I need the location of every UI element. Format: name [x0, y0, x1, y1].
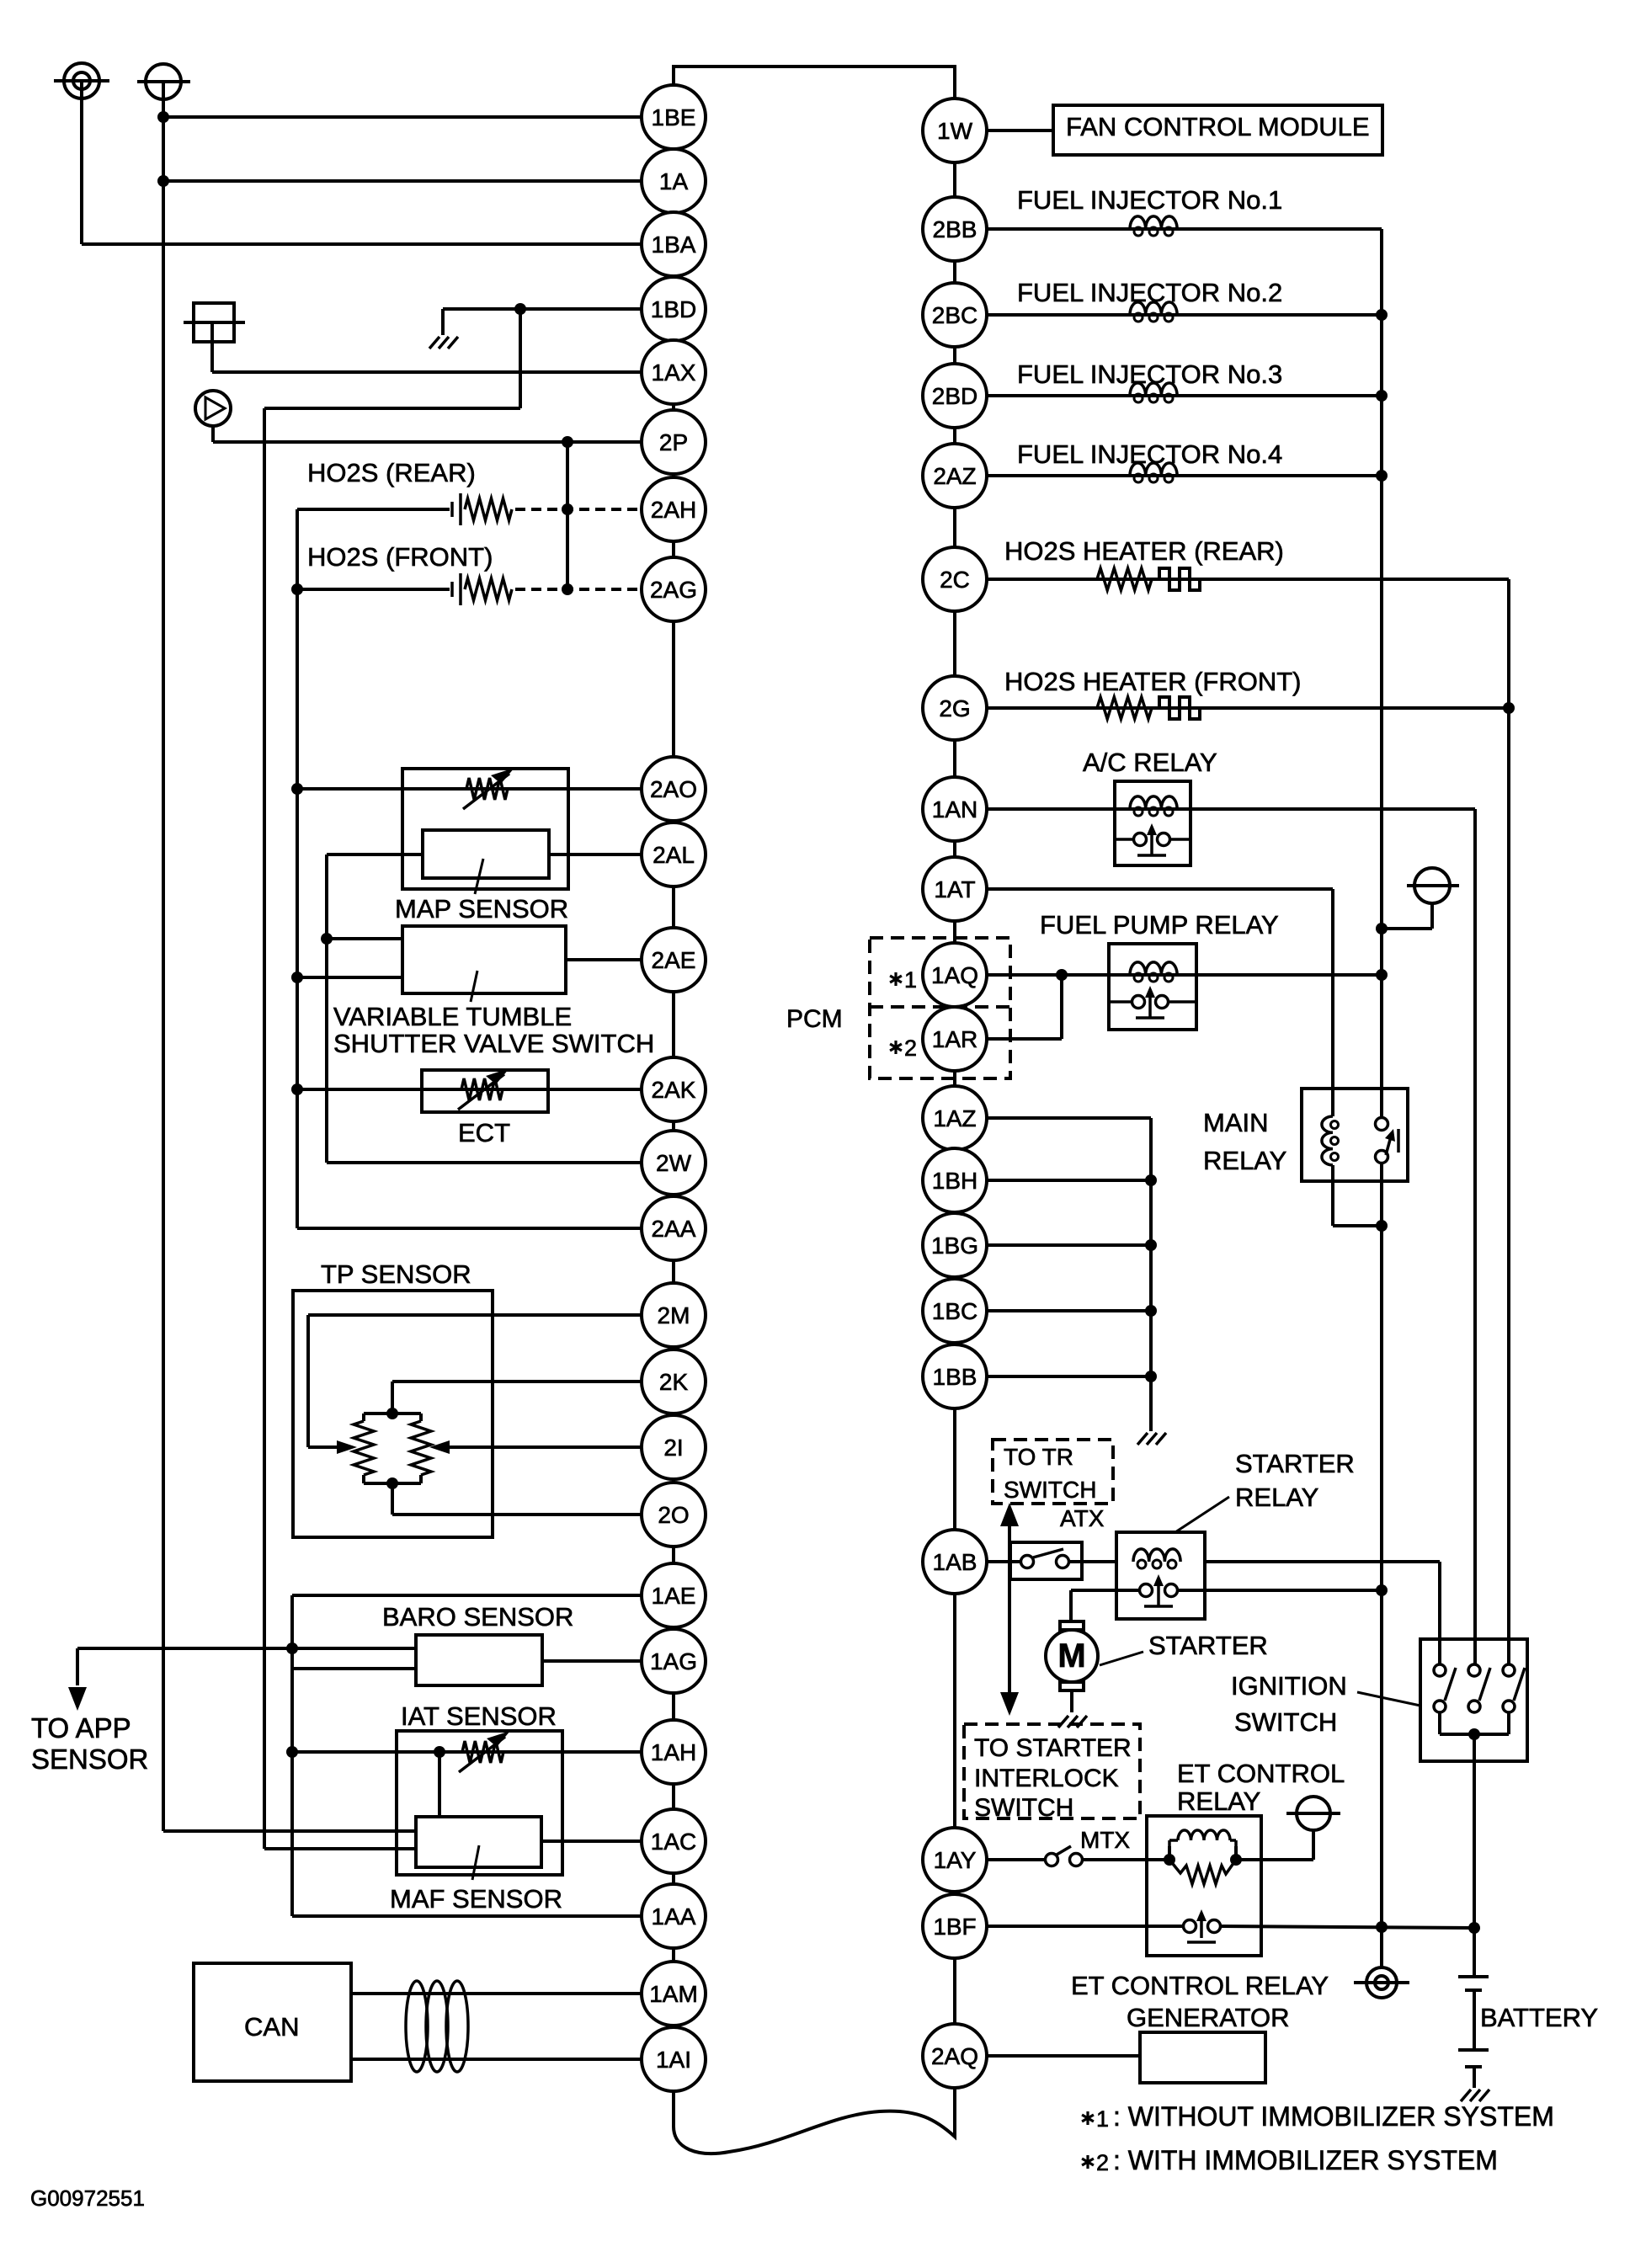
svg-text:2M: 2M	[658, 1302, 690, 1328]
svg-text:M: M	[1057, 1637, 1085, 1674]
svg-text:SWITCH: SWITCH	[1234, 1707, 1337, 1737]
svg-text:2AG: 2AG	[650, 577, 697, 603]
svg-text:2AH: 2AH	[651, 497, 696, 523]
svg-text:PCM: PCM	[786, 1005, 843, 1033]
svg-text:TO TR: TO TR	[1004, 1444, 1073, 1470]
svg-text:IGNITION: IGNITION	[1231, 1671, 1347, 1701]
svg-text:MAP SENSOR: MAP SENSOR	[395, 894, 568, 924]
svg-text:MAF SENSOR: MAF SENSOR	[390, 1884, 562, 1914]
svg-text:2AK: 2AK	[652, 1077, 696, 1103]
svg-text:1BG: 1BG	[931, 1232, 978, 1259]
svg-text:1AQ: 1AQ	[931, 962, 978, 988]
svg-text:ECT: ECT	[458, 1118, 510, 1147]
svg-text:FUEL INJECTOR No.1: FUEL INJECTOR No.1	[1017, 185, 1282, 215]
svg-text:2AA: 2AA	[652, 1216, 696, 1242]
svg-text:1BC: 1BC	[932, 1298, 977, 1324]
svg-text:1AC: 1AC	[651, 1829, 696, 1855]
svg-text:1AZ: 1AZ	[933, 1105, 976, 1131]
svg-text:1AN: 1AN	[932, 796, 977, 823]
svg-text:2AQ: 2AQ	[931, 2043, 978, 2069]
svg-text:1AM: 1AM	[649, 1981, 698, 2007]
svg-text:TO APP: TO APP	[31, 1712, 131, 1744]
svg-text:BARO SENSOR: BARO SENSOR	[382, 1602, 573, 1632]
svg-text:RELAY: RELAY	[1203, 1146, 1286, 1175]
svg-text:FUEL PUMP RELAY: FUEL PUMP RELAY	[1040, 910, 1279, 940]
svg-text:1AB: 1AB	[933, 1549, 977, 1575]
svg-text:BATTERY: BATTERY	[1480, 2003, 1598, 2032]
svg-text:2W: 2W	[656, 1150, 692, 1176]
svg-text:FUEL INJECTOR No.3: FUEL INJECTOR No.3	[1017, 359, 1282, 389]
svg-text:1AG: 1AG	[650, 1648, 697, 1674]
svg-text:FAN CONTROL MODULE: FAN CONTROL MODULE	[1066, 112, 1370, 141]
svg-text:ATX: ATX	[1060, 1505, 1105, 1531]
svg-text:2BC: 2BC	[932, 302, 977, 328]
svg-text:RELAY: RELAY	[1177, 1786, 1260, 1816]
svg-text:STARTER: STARTER	[1235, 1449, 1355, 1478]
svg-text:1A: 1A	[659, 168, 689, 194]
svg-text:TP SENSOR: TP SENSOR	[321, 1259, 471, 1289]
svg-text:: WITH IMMOBILIZER SYSTEM: : WITH IMMOBILIZER SYSTEM	[1113, 2145, 1498, 2175]
svg-text:IAT SENSOR: IAT SENSOR	[401, 1701, 557, 1731]
svg-text:2: 2	[904, 1036, 917, 1061]
svg-text:2BD: 2BD	[932, 383, 977, 409]
svg-text:2P: 2P	[659, 429, 688, 455]
svg-text:2AZ: 2AZ	[933, 463, 976, 489]
svg-text:2AO: 2AO	[650, 776, 697, 802]
svg-text:FUEL INJECTOR No.2: FUEL INJECTOR No.2	[1017, 278, 1282, 307]
svg-text:FUEL INJECTOR No.4: FUEL INJECTOR No.4	[1017, 439, 1282, 469]
svg-text:G00972551: G00972551	[30, 2185, 145, 2211]
svg-text:ET CONTROL: ET CONTROL	[1177, 1759, 1345, 1788]
svg-text:SWITCH: SWITCH	[1004, 1477, 1096, 1503]
svg-text:SENSOR: SENSOR	[31, 1744, 148, 1775]
svg-text:2: 2	[1096, 2150, 1109, 2175]
svg-text:A/C RELAY: A/C RELAY	[1083, 748, 1217, 777]
svg-text:1AA: 1AA	[652, 1903, 696, 1930]
svg-text:RELAY: RELAY	[1235, 1483, 1318, 1512]
svg-text:MTX: MTX	[1080, 1827, 1130, 1853]
svg-text:GENERATOR: GENERATOR	[1127, 2003, 1290, 2032]
svg-text:2C: 2C	[940, 567, 970, 593]
svg-text:1W: 1W	[937, 118, 973, 144]
svg-text:1: 1	[904, 967, 917, 993]
svg-text:1AE: 1AE	[652, 1583, 696, 1609]
svg-text:1AR: 1AR	[932, 1026, 977, 1052]
svg-text:1AH: 1AH	[651, 1739, 696, 1765]
svg-text:1AT: 1AT	[934, 876, 975, 902]
svg-text:HO2S HEATER (REAR): HO2S HEATER (REAR)	[1004, 536, 1284, 566]
svg-text:CAN: CAN	[244, 2012, 299, 2042]
svg-text:1AY: 1AY	[934, 1847, 977, 1873]
svg-text:1AX: 1AX	[652, 359, 696, 386]
svg-text:MAIN: MAIN	[1203, 1108, 1269, 1137]
svg-text:1AI: 1AI	[656, 2047, 691, 2073]
svg-text:1BA: 1BA	[652, 232, 696, 258]
svg-text:2BB: 2BB	[933, 216, 977, 242]
svg-text:2O: 2O	[658, 1502, 689, 1528]
svg-text:2AE: 2AE	[652, 947, 696, 973]
svg-text:: WITHOUT IMMOBILIZER SYSTEM: : WITHOUT IMMOBILIZER SYSTEM	[1113, 2101, 1554, 2132]
svg-text:HO2S HEATER (FRONT): HO2S HEATER (FRONT)	[1004, 667, 1302, 696]
svg-text:SHUTTER VALVE SWITCH: SHUTTER VALVE SWITCH	[333, 1029, 654, 1058]
svg-text:1BH: 1BH	[932, 1168, 977, 1194]
svg-text:VARIABLE TUMBLE: VARIABLE TUMBLE	[333, 1002, 572, 1031]
svg-text:SWITCH: SWITCH	[974, 1794, 1073, 1822]
svg-text:ET CONTROL RELAY: ET CONTROL RELAY	[1071, 1971, 1329, 2000]
svg-text:HO2S (REAR): HO2S (REAR)	[307, 458, 476, 487]
svg-text:HO2S (FRONT): HO2S (FRONT)	[307, 542, 493, 572]
svg-text:2G: 2G	[939, 695, 970, 721]
svg-text:1BD: 1BD	[651, 296, 696, 322]
svg-text:2I: 2I	[663, 1435, 683, 1461]
svg-text:1: 1	[1096, 2106, 1109, 2132]
svg-text:2AL: 2AL	[653, 842, 695, 868]
svg-text:1BB: 1BB	[933, 1364, 977, 1390]
svg-text:STARTER: STARTER	[1148, 1631, 1268, 1660]
svg-text:2K: 2K	[659, 1369, 689, 1395]
svg-text:1BE: 1BE	[652, 104, 696, 130]
svg-text:1BF: 1BF	[933, 1914, 976, 1940]
svg-text:TO STARTER: TO STARTER	[974, 1734, 1132, 1762]
svg-text:INTERLOCK: INTERLOCK	[974, 1765, 1119, 1792]
